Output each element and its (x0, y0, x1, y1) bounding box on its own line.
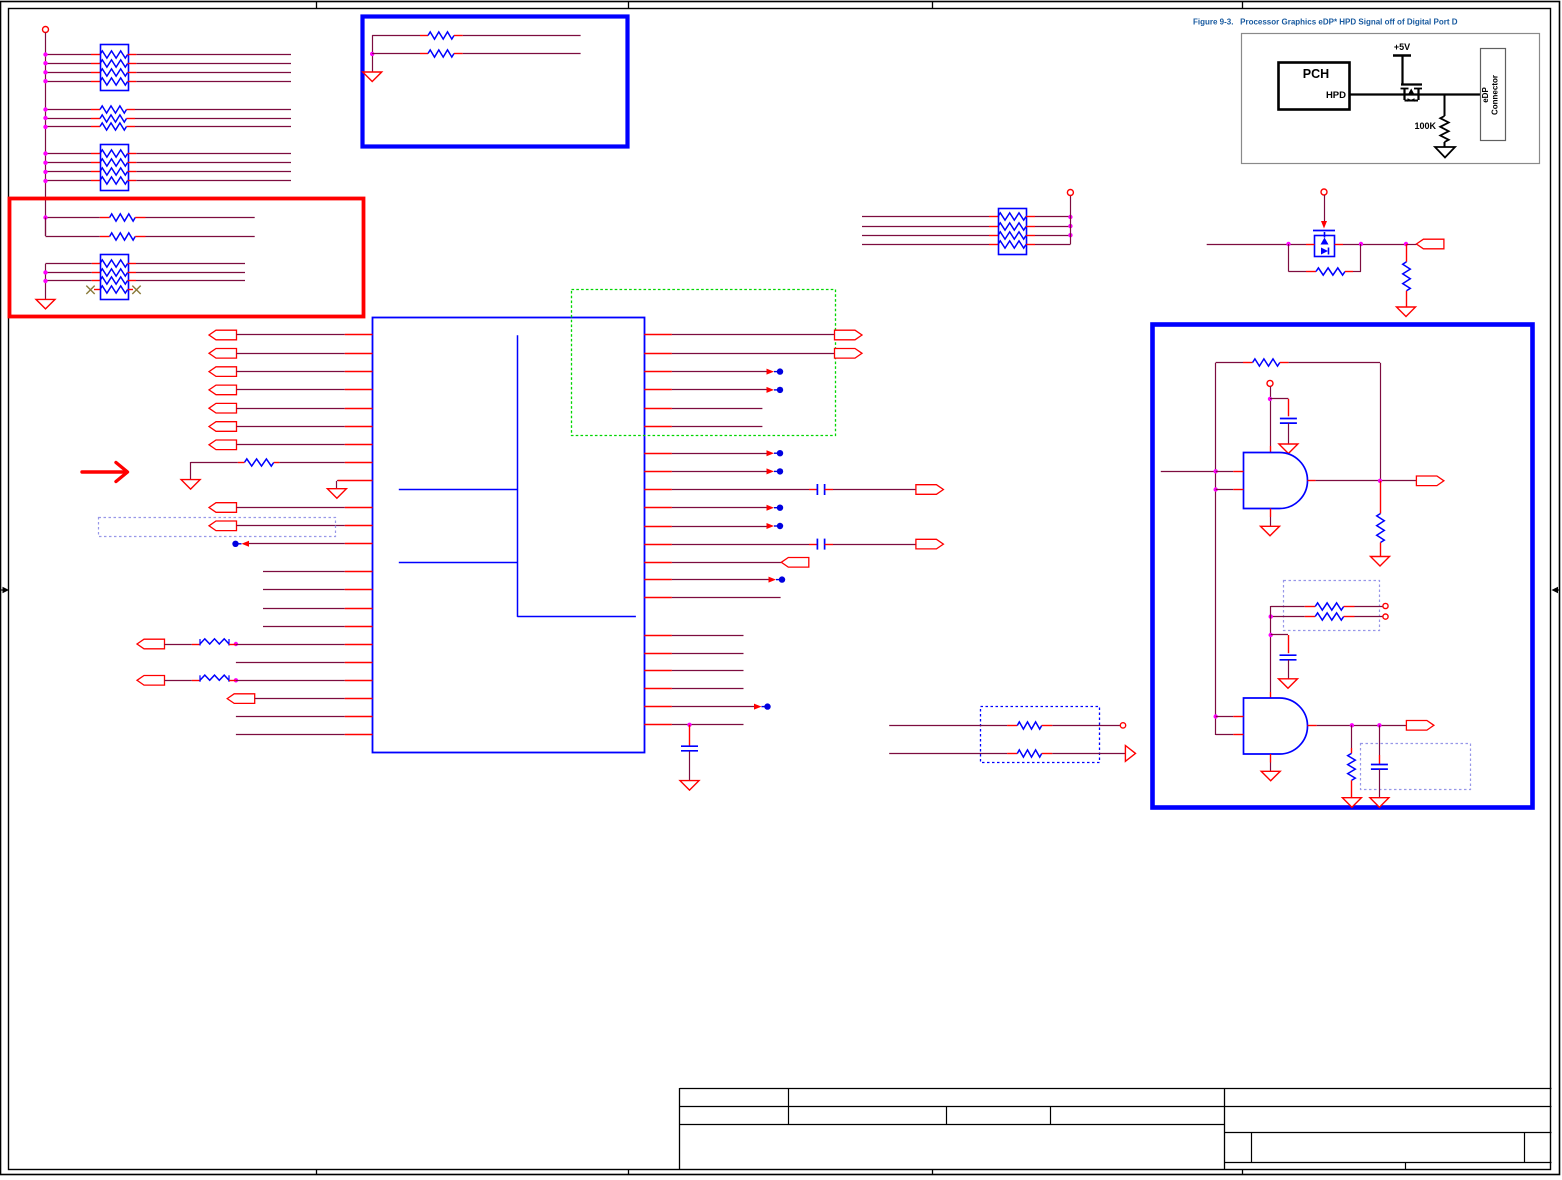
wire R group2 line 1 left (46, 109, 92, 111)
wire gate2 inA (1216, 716, 1234, 718)
capacitor C3 (681, 745, 698, 747)
resistor RP3-1 (100, 260, 128, 267)
connector right pin 1 (835, 330, 863, 340)
capacitor C2 (816, 539, 818, 550)
junction RT2 (370, 52, 374, 56)
wire RP4 line 3 right (1026, 235, 1035, 237)
junction right pin 21 (687, 723, 691, 727)
wire right pin 4 (644, 389, 672, 391)
wire gate1 top (1270, 386, 1272, 446)
termination blue dot right pin 14 (769, 577, 777, 583)
wire gate2 out (1308, 725, 1317, 727)
wire top link right (1280, 362, 1289, 364)
resistor RP1-2 (100, 60, 128, 67)
resistor RP1-3 (100, 69, 128, 76)
ground R8 (1371, 557, 1390, 567)
wire gate1 inB (1216, 489, 1234, 491)
wire left pin 9 (338, 480, 373, 482)
resistor bypass (1316, 268, 1345, 275)
border zone tick top (1242, 2, 1244, 10)
wire vertical rail top-left (45, 33, 47, 237)
junction left pin 17 (234, 642, 238, 646)
connector left pin 7 (209, 440, 237, 450)
resistor RP3-4 (100, 286, 128, 293)
connector right pin 2 (835, 349, 863, 359)
wire gate2 top rail (1270, 606, 1272, 692)
no-connect X RP3-4 right (128, 289, 133, 291)
resistor pulldown (1403, 262, 1411, 291)
wire C6 bottom (1379, 769, 1381, 798)
capacitor C6 (1371, 764, 1388, 766)
resistor RP1-4 (100, 78, 128, 85)
resistor R8 (1377, 514, 1385, 543)
connector gate2 out (1406, 721, 1434, 731)
junction gate2 cap branch (1269, 633, 1273, 637)
ground C6 (1370, 798, 1389, 808)
wire right pin 8 (644, 471, 672, 473)
wire RP3 line1 right (128, 263, 136, 265)
wire RP2 line 3 right (128, 171, 137, 173)
resistor RT1 (428, 32, 454, 39)
wire +5V to FET gate (1401, 56, 1403, 84)
border zone tick top (932, 2, 934, 10)
wire pulldown top (1406, 244, 1408, 262)
wire rail RP3 (45, 264, 47, 300)
connector left pin 20 (227, 694, 255, 704)
wire right pin 15 (644, 597, 672, 599)
title block (680, 1088, 1552, 1170)
wire right pin 16 (644, 635, 672, 637)
wire top link left (1216, 362, 1243, 364)
svg-text:Figure 9-3. Processor Graphi: Figure 9-3. Processor Graphics eDP* HPD … (1193, 18, 1458, 27)
wire right pin 12 a (644, 544, 672, 546)
border center arrow right (1552, 587, 1561, 593)
ground gate2 (1261, 771, 1280, 781)
connector left pin 1 (209, 330, 237, 340)
wire R11 top (1351, 725, 1353, 748)
connector HPD out (1416, 239, 1444, 249)
resistor left pin 17 (200, 639, 229, 644)
resistor RP2-2 (100, 159, 128, 166)
ground top-left rail (36, 299, 55, 309)
eDP connector box (1481, 49, 1506, 141)
wire left pin 6 (237, 426, 345, 428)
wire cap C4 branch (1270, 398, 1288, 400)
resistor RP4-4 (998, 241, 1026, 248)
connector left pin 10 (209, 503, 237, 513)
wire left pin 19 b (229, 680, 236, 682)
resistor RP3-3 (100, 277, 128, 284)
wire FET left (1207, 244, 1289, 246)
wire right pin 21 (644, 724, 672, 726)
blue annotation box top (363, 17, 628, 147)
wire RP2 line 2 right (128, 162, 137, 164)
wire FET right (1335, 244, 1344, 246)
svg-text:Connector: Connector (1491, 75, 1500, 115)
junction gate2 inA (1214, 714, 1218, 718)
wire left pin 14 (263, 589, 345, 591)
resistor feedback R7 (1253, 359, 1280, 366)
capacitor C1 (816, 484, 818, 495)
op-amp gate U2A (1244, 453, 1308, 509)
junction gate1 top (1268, 397, 1272, 401)
wire left pin 4 (237, 389, 345, 391)
wire gate1 out (1308, 480, 1316, 482)
wire RP4 line 3 left (862, 235, 989, 237)
wire gate2 inB (1216, 734, 1234, 736)
connector left pin 5 (209, 403, 237, 413)
wire right pin 5 (644, 408, 672, 410)
junction gate2 out B (1377, 723, 1381, 727)
termination blue dot right pin 8 (767, 468, 775, 474)
wire left pin 2 (237, 353, 345, 355)
wire R group2 line 2 left (46, 118, 92, 120)
wire RP3 line3 right (128, 280, 136, 282)
wire RP2 line 1 left (46, 153, 92, 155)
PCH box (1279, 63, 1350, 110)
junction RP1-4 (43, 79, 47, 83)
wire RP2 line 1 right (128, 153, 137, 155)
border zone tick bottom (932, 1170, 934, 1175)
resistor R2-1 (100, 106, 127, 113)
junction RP1-2 (43, 61, 47, 65)
wire RP4 line 2 left (862, 226, 989, 228)
resistor RP2-1 (100, 150, 128, 157)
junction RP4-1 (1068, 215, 1072, 219)
junction R2-3 (43, 125, 47, 129)
wire R10 left (1271, 616, 1305, 618)
wire left pin 18 (236, 662, 345, 664)
ground R11 (1342, 798, 1361, 808)
junction R10 (1269, 614, 1273, 618)
node stub R5 (1120, 723, 1125, 728)
arrow terminator R6 (1125, 746, 1135, 762)
wire cap C4 bottom (1288, 423, 1290, 444)
red annotation arrow (82, 463, 128, 482)
wire R9 left corner (1271, 606, 1305, 608)
junction output node (1404, 242, 1408, 246)
wire RT2 left (372, 53, 420, 55)
wire pulldown R8 top (1380, 481, 1382, 514)
resistor R2-2 (100, 115, 127, 122)
wire R9 right (1344, 606, 1355, 608)
wire RP3 line3 left (46, 280, 92, 282)
wire right pin 10 (644, 507, 672, 509)
wire gate1 inA (1216, 471, 1234, 473)
junction RP4-2 (1068, 224, 1072, 228)
FET Q2 gate bar (1313, 230, 1335, 232)
wire R3-2 right (135, 236, 145, 238)
IC U1 inner line B (399, 562, 518, 564)
wire left pin 10 (237, 507, 345, 509)
junction gate1 inA (1214, 469, 1218, 473)
resistor RP1-1 (100, 51, 128, 58)
resistor R11 (1348, 753, 1356, 780)
wire mid R6 left (889, 753, 1007, 755)
wire cap C5 bottom (1288, 660, 1290, 679)
junction gate1 inB (1214, 487, 1218, 491)
junction RP1-3 (43, 70, 47, 74)
wire left pin 11 (237, 525, 345, 527)
wire mid R5 left (889, 725, 1007, 727)
FET Q1 gate bar (1401, 83, 1422, 85)
wire RT1 left corner (372, 35, 420, 37)
connector left pin 19 (137, 676, 165, 686)
termination blue dot right pin 20 (754, 704, 762, 710)
blue annotation box right (1153, 325, 1533, 808)
wire RP4 rail (1070, 196, 1072, 245)
wire R10 right (1344, 616, 1355, 618)
termination blue dot right pin 11 (767, 523, 775, 529)
IC U1 body (373, 318, 645, 753)
wire left pin 8 to corner (238, 462, 245, 464)
junction RP3-2 (43, 270, 47, 274)
wire R group2 line 3 right (127, 126, 136, 128)
wire output to connector (1406, 244, 1416, 246)
border zone tick bottom (316, 1170, 318, 1175)
junction RP2-4 (43, 179, 47, 183)
svg-text:eDP: eDP (1481, 87, 1490, 103)
wire left pin 15 (263, 608, 345, 610)
border center arrow left (1, 587, 9, 593)
wire RP1 line 2 right (128, 63, 137, 65)
wire right pin 18 (644, 670, 672, 672)
resistor R2-3 (100, 123, 127, 130)
resistor RP4-1 (998, 213, 1026, 220)
wire RP3 line2 right (128, 272, 136, 274)
connector gate1 out (1416, 476, 1444, 486)
junction RP4-3 (1068, 233, 1072, 237)
wire RP1 line 2 left (46, 63, 92, 65)
resistor R6 (1017, 750, 1041, 757)
wire right pin 17 (644, 653, 672, 655)
FET Q1 body (1403, 88, 1405, 100)
connector left pin 4 (209, 385, 237, 395)
termination blue dot right pin 3 (767, 369, 775, 375)
dashed annotation box out (1361, 744, 1471, 790)
wire RP1 line 3 right (128, 72, 137, 74)
node stub FET gate (1321, 189, 1327, 195)
wire left pin 13 (263, 571, 345, 573)
termination blue dot right pin 4 (767, 387, 775, 393)
wire RP1 line 4 right (128, 81, 137, 83)
wire pulldown R8 bottom (1380, 543, 1382, 557)
IC U1 inner line C (517, 616, 636, 618)
resistor 100K (1440, 116, 1448, 142)
junction R2-1 (43, 107, 47, 111)
ground blue-box (363, 72, 382, 82)
wire RT2 right (454, 53, 463, 55)
wire right pin 9 a (644, 489, 672, 491)
IC U1 inner divider vertical (517, 335, 519, 617)
junction R3-1 (43, 215, 47, 219)
resistor left pin 8 (244, 459, 273, 466)
wire right pin 20 (644, 706, 672, 708)
wire right pin 6 (644, 426, 672, 428)
ground C3 (680, 781, 699, 791)
dashed annotation box mid (981, 707, 1100, 763)
wire RP3 line2 left (46, 272, 92, 274)
junction FET left (1286, 242, 1290, 246)
junction gate1 out (1378, 479, 1382, 483)
wire RT2 rail (372, 35, 374, 72)
wire left pin 19 a (165, 680, 192, 682)
resistor R3-2 (110, 233, 136, 240)
svg-text:HPD: HPD (1326, 90, 1346, 101)
wire R11 bottom (1351, 780, 1353, 797)
resistor R10 (1315, 613, 1344, 620)
node stub R10 (1383, 614, 1388, 619)
wire R3-1 right (135, 217, 145, 219)
figure frame (1242, 34, 1540, 164)
wire R3-1 left (46, 217, 100, 219)
wire gate2 gnd pin (1270, 754, 1272, 763)
resistor RP4-2 (998, 223, 1026, 230)
ground left pin 8 (181, 480, 200, 490)
resistor left pin 19 (200, 675, 229, 680)
gate arrow (1321, 221, 1327, 229)
wire left pin 1 (237, 334, 345, 336)
wire bypass left leg (1288, 244, 1290, 272)
resistor pack RP1 box (101, 45, 129, 91)
svg-text:100K: 100K (1414, 121, 1436, 131)
resistor RP4-3 (998, 232, 1026, 239)
termination blue dot right pin 10 (767, 505, 775, 511)
resistor pack RP4 box (999, 209, 1027, 255)
node VCC stub top-left (43, 27, 49, 33)
wire RP4 line 1 left (862, 216, 989, 218)
wire HPD to eDP connector (1350, 93, 1480, 95)
wire R group2 line 1 right (127, 109, 136, 111)
resistor R3-1 (110, 214, 136, 221)
wire RP4 line 2 right (1026, 226, 1035, 228)
wire R group2 line 3 left (46, 126, 92, 128)
ground C5 (1279, 679, 1298, 689)
wire left pin 8 stub (345, 462, 373, 464)
wire cap C5 branch (1271, 634, 1288, 636)
resistor RT2 (428, 50, 454, 57)
wire left pin 22 (236, 734, 345, 736)
junction RP3-3 (43, 279, 47, 283)
resistor pack RP2 box (101, 145, 129, 191)
wire bypass right leg (1345, 271, 1353, 273)
termination blue dot right pin 7 (767, 450, 775, 456)
junction left pin 19 (234, 678, 238, 682)
wire mid R6 right (1042, 753, 1053, 755)
junction RP2-2 (43, 161, 47, 165)
FET Q2 body box (1315, 236, 1335, 257)
wire RT1 right (454, 35, 463, 37)
connector left pin 3 (209, 367, 237, 377)
connector left pin 17 (137, 639, 165, 649)
wire right pin 7 (644, 453, 672, 455)
junction RP2-3 (43, 170, 47, 174)
ground left pin 9 (327, 489, 346, 499)
wire right pin 12 b (825, 544, 833, 546)
wire left pin 21 (236, 716, 345, 718)
wire right pin 1 (644, 334, 672, 336)
junction RP2-1 (43, 151, 47, 155)
red annotation box (10, 199, 364, 317)
connector left pin 2 (209, 349, 237, 359)
wire R3-2 left corner (45, 218, 47, 237)
wire RP1 line 1 right (128, 54, 137, 56)
wire right pin 9 b (825, 489, 833, 491)
green annotation box (572, 290, 836, 436)
wire right pin 3 (644, 371, 672, 373)
wire RP2 line 3 left (46, 171, 92, 173)
capacitor C5 (1280, 654, 1297, 656)
connector left pin 11 (209, 521, 237, 531)
wire RP1 line 4 left (46, 81, 92, 83)
termination blue dot left pin 12 (242, 541, 250, 547)
wire R group2 line 2 right (127, 118, 136, 120)
connector left pin 6 (209, 422, 237, 432)
wire left pin 17 b (229, 644, 236, 646)
dashed annotation box gates (1284, 581, 1380, 631)
node stub gate1 (1267, 380, 1273, 386)
connector right pin 12 (916, 539, 944, 549)
wire RP3 line1 corner (46, 263, 92, 265)
wire 100K to ground (1444, 142, 1446, 147)
wire left rail (1215, 363, 1217, 735)
FET Q2 arrow (1321, 238, 1329, 245)
wire RP2 line 2 left (46, 162, 92, 164)
FET Q2 body diode (1321, 248, 1328, 255)
wire RP1 line 1 left (46, 54, 92, 56)
resistor RP2-4 (100, 177, 128, 184)
wire left pin 5 (237, 408, 345, 410)
svg-text:+5V: +5V (1394, 42, 1410, 52)
wire right pin 14 (644, 579, 672, 581)
wire C6 top (1379, 725, 1381, 755)
wire left pin 17 a (165, 644, 192, 646)
wire gate input feed (1161, 471, 1216, 473)
junction RP1-1 (43, 52, 47, 56)
border zone tick bottom (628, 1170, 630, 1175)
ground gate1 (1261, 526, 1280, 536)
border zone tick bottom (1242, 1170, 1244, 1175)
wire cap C3 bottom (689, 751, 691, 780)
wire RP4 line 1 right (1026, 216, 1035, 218)
resistor pack RP3 box (101, 255, 129, 300)
node stub RP4 (1067, 190, 1073, 196)
wire RP2 line 4 left (46, 180, 92, 182)
junction gate2 out A (1350, 723, 1354, 727)
wire mid R5 right (1042, 725, 1053, 727)
junction R2-2 (43, 116, 47, 120)
wire RP2 line 4 right (128, 180, 137, 182)
wire pulldown bottom (1406, 291, 1408, 307)
wire gate vertical (1324, 195, 1326, 221)
ground pulldown (1397, 307, 1416, 317)
connector right pin 9 (916, 485, 944, 495)
svg-text:PCH: PCH (1303, 67, 1329, 81)
wire left pin 12 (345, 543, 373, 545)
junction HPD net (1444, 95, 1446, 116)
wire gate1 gnd pin (1270, 509, 1272, 518)
border zone tick top (316, 2, 318, 10)
wire right pin 19 (644, 688, 672, 690)
capacitor C4 (1280, 418, 1297, 420)
IC U1 inner line A (399, 489, 518, 491)
op-amp gate U2B (1244, 698, 1308, 754)
no-connect X RP3-4 left (86, 286, 94, 294)
ground C4 (1279, 444, 1298, 454)
ground figure (1435, 147, 1455, 158)
wire RP1 line 3 left (46, 72, 92, 74)
resistor RP3-2 (100, 269, 128, 276)
